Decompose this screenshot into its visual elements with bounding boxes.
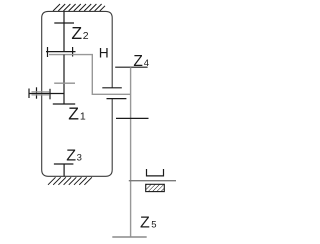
svg-text:Z: Z <box>133 53 142 70</box>
housing box (fixed ring-gear frame, rounded rect, right edge interrupted by mesh) <box>42 11 113 176</box>
svg-text:Z: Z <box>71 23 82 43</box>
gear tick on input shaft <box>49 89 51 100</box>
fixed block with hatching <box>146 184 165 191</box>
svg-text:Z: Z <box>66 148 76 165</box>
carrier H link: gray bar + elbow to right shaft <box>49 55 131 95</box>
ring gear jaw lower bar <box>107 98 127 100</box>
svg-text:2: 2 <box>83 30 89 42</box>
shaft of gear Z2 (upper planet shaft) <box>63 11 65 52</box>
bearing tick <box>36 87 38 98</box>
bearing bracket U above support line <box>147 169 164 176</box>
mesh bar below Z2 (black) <box>46 51 76 53</box>
mesh tooth tick left <box>47 47 49 57</box>
ring gear jaw upper bar (on housing right edge) <box>102 87 122 89</box>
gear Z2 disc bar <box>54 22 74 24</box>
ground hatching top (fixed frame) <box>53 4 105 11</box>
svg-text:4: 4 <box>144 58 149 69</box>
svg-text:Z: Z <box>140 215 150 232</box>
central sun shaft (Z1) <box>63 55 65 104</box>
svg-text:3: 3 <box>77 153 82 164</box>
svg-text:Z: Z <box>68 104 79 124</box>
Z3 tick to housing <box>63 164 65 176</box>
ground hatching bottom (fixed frame) <box>48 177 92 185</box>
gear Z1 top face (gray) <box>54 82 75 84</box>
input shaft line <box>29 93 64 95</box>
svg-text:1: 1 <box>80 111 86 123</box>
gear Z5 bar (bottom) <box>112 236 146 238</box>
gear Z3 bar (fixed ring) <box>54 163 74 165</box>
gear Z4 top bar <box>115 66 147 68</box>
support line <box>129 180 176 182</box>
mesh tooth tick right <box>72 47 74 57</box>
svg-text:H: H <box>99 46 109 61</box>
coupling sleeve (gray band) <box>32 91 50 93</box>
gear Z4 bottom bar <box>116 117 149 119</box>
svg-text:5: 5 <box>151 220 156 231</box>
gear Z1 bottom bar <box>53 103 75 105</box>
bearing tick <box>28 89 30 99</box>
shaft of Z4 / Z5 (gray vertical) <box>130 67 132 237</box>
